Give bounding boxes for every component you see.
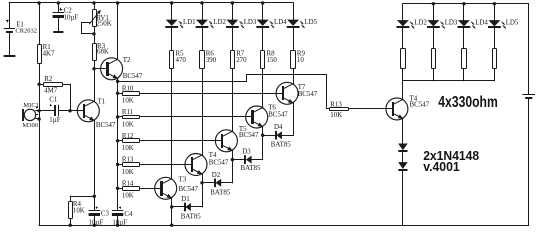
svg-text:BC547: BC547 [209,160,229,167]
svg-text:BC547: BC547 [123,73,143,80]
svg-text:D2: D2 [212,172,221,179]
svg-text:R12: R12 [122,133,134,140]
svg-text:10K: 10K [122,193,134,200]
svg-text:150: 150 [267,57,278,64]
svg-text:D3: D3 [242,149,251,156]
svg-text:BC547: BC547 [410,101,430,108]
svg-text:T1: T1 [97,98,105,105]
svg-text:270: 270 [236,57,247,64]
svg-text:LD5: LD5 [506,19,519,26]
svg-text:R11: R11 [122,109,134,116]
svg-text:M300: M300 [22,122,38,129]
svg-text:D1: D1 [181,196,190,203]
svg-text:LD3: LD3 [244,19,257,26]
svg-text:T3: T3 [179,177,187,184]
svg-text:C1: C1 [49,97,58,104]
svg-text:LD5: LD5 [304,19,317,26]
svg-text:4x330ohm: 4x330ohm [438,94,498,111]
svg-text:10µF: 10µF [64,14,79,21]
svg-text:LD4: LD4 [475,19,488,26]
svg-text:10: 10 [297,57,304,64]
svg-text:10µF: 10µF [112,220,127,227]
svg-text:BAT85: BAT85 [241,165,261,172]
svg-text:CR2032: CR2032 [15,28,37,35]
svg-text:R14: R14 [122,180,134,187]
svg-text:10K: 10K [73,207,85,214]
svg-text:LD4: LD4 [274,19,287,26]
svg-text:390: 390 [206,57,217,64]
svg-text:BC547: BC547 [298,91,318,98]
svg-text:v.4001: v.4001 [423,159,460,174]
svg-text:BC547: BC547 [239,132,259,139]
svg-text:C3: C3 [101,210,110,217]
svg-text:1µF: 1µF [49,117,60,124]
svg-text:C4: C4 [124,211,133,218]
svg-text:10K: 10K [122,145,134,152]
svg-text:T7: T7 [298,84,306,91]
svg-text:LD3: LD3 [445,19,458,26]
svg-text:BC547: BC547 [179,186,199,193]
svg-text:BAT85: BAT85 [210,189,230,196]
svg-text:D4: D4 [274,124,283,131]
svg-text:4M7: 4M7 [44,87,58,94]
svg-text:R13: R13 [330,101,342,108]
svg-text:T2: T2 [123,57,131,64]
svg-text:4K7: 4K7 [43,51,55,58]
svg-text:BAT85: BAT85 [181,213,201,220]
svg-text:R10: R10 [122,85,134,92]
svg-text:250K: 250K [96,21,111,28]
svg-text:10K: 10K [122,121,134,128]
svg-text:BC547: BC547 [96,122,116,129]
svg-text:T4: T4 [209,152,217,159]
svg-text:68K: 68K [97,49,109,56]
svg-text:MIC1: MIC1 [23,102,39,109]
svg-text:BC547: BC547 [268,111,288,118]
svg-text:T6: T6 [268,104,276,111]
svg-text:LD2: LD2 [213,19,226,26]
svg-text:10µF: 10µF [89,220,104,227]
svg-text:470: 470 [176,57,187,64]
svg-text:LD2: LD2 [414,19,427,26]
svg-text:R13: R13 [122,157,134,164]
svg-text:10K: 10K [330,112,342,119]
svg-text:LD1: LD1 [183,19,196,26]
svg-text:R2: R2 [44,76,53,83]
svg-text:10K: 10K [122,98,134,105]
svg-text:BAT85: BAT85 [271,142,291,149]
svg-text:10K: 10K [122,169,134,176]
